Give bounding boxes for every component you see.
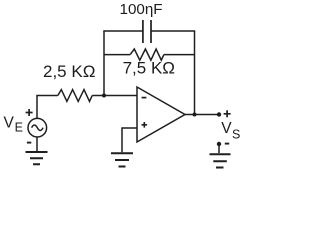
ground op-amp bbox=[111, 153, 133, 166]
ground VE bbox=[26, 152, 48, 164]
wire left to resistor R2 bbox=[104, 54, 130, 56]
wire VE bottom vertical bbox=[36, 137, 38, 151]
svg-text:2,5 KΩ: 2,5 KΩ bbox=[43, 62, 95, 81]
resistor R2 7,5 KOhm zigzag bbox=[130, 49, 164, 60]
wire op-amp output bbox=[185, 114, 219, 116]
svg-text:E: E bbox=[15, 121, 23, 135]
node VS plus terminal bbox=[217, 112, 221, 116]
resistor R1 2,5 KOhm zigzag bbox=[58, 90, 92, 102]
capacitor C1 plates bbox=[143, 20, 151, 43]
wire resistor to op-amp inverting input bbox=[92, 95, 137, 97]
svg-text:V: V bbox=[221, 120, 232, 137]
wire R2 to right vertical bbox=[164, 54, 195, 56]
wire VS minus terminal to ground bbox=[218, 144, 220, 153]
op-amp minus input label bbox=[142, 97, 147, 99]
wire capacitor right to corner bbox=[151, 30, 195, 32]
op-amp plus input label bbox=[142, 122, 148, 128]
wire feedback right vertical bbox=[194, 31, 196, 115]
minus sign at VS bbox=[225, 143, 229, 145]
plus sign at VE bbox=[26, 109, 33, 116]
op-amp U1 triangle bbox=[137, 87, 185, 142]
wire feedback left vertical bbox=[103, 31, 105, 96]
node junction input bbox=[102, 94, 106, 98]
minus sign at VE bbox=[27, 142, 31, 144]
svg-text:S: S bbox=[232, 127, 240, 141]
wire top to capacitor left bbox=[103, 30, 143, 32]
wire VE top vertical bbox=[36, 96, 38, 119]
wire non-inverting input bbox=[122, 128, 137, 152]
svg-text:7,5 KΩ: 7,5 KΩ bbox=[123, 59, 175, 78]
svg-text:V: V bbox=[4, 114, 15, 131]
sine symbol inside VE bbox=[32, 125, 43, 131]
node junction output bbox=[193, 113, 197, 117]
plus sign at VS bbox=[224, 110, 231, 117]
voltage source VE circle bbox=[28, 118, 47, 137]
node VS minus terminal bbox=[217, 142, 221, 146]
ground VS bbox=[210, 154, 231, 167]
svg-text:100ηF: 100ηF bbox=[120, 1, 163, 18]
wire VE to resistor bbox=[36, 95, 58, 97]
